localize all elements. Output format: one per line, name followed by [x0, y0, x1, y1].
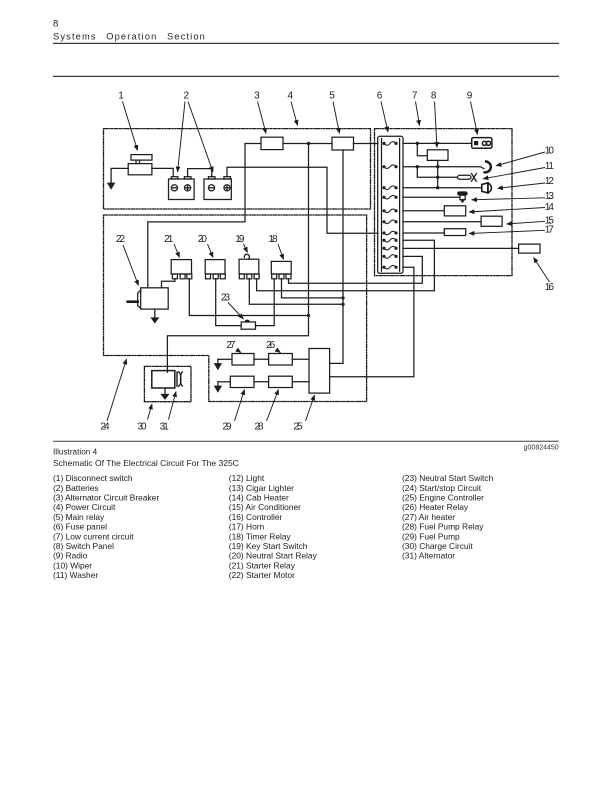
leader 31	[169, 392, 177, 420]
wire: fuel pump relay to engine controller	[292, 381, 309, 383]
svg-text:(5) Main relay: (5) Main relay	[53, 512, 105, 522]
node	[416, 142, 419, 145]
connector (9)	[472, 138, 492, 149]
svg-text:11: 11	[545, 161, 555, 172]
leader 22	[123, 245, 139, 286]
leader 1	[123, 102, 138, 151]
low current circuit border (7)	[375, 129, 513, 276]
leader 19	[244, 244, 248, 253]
svg-text:(16) Controller: (16) Controller	[229, 512, 283, 522]
svg-text:16: 16	[545, 282, 555, 293]
svg-text:(25) Engine Controller: (25) Engine Controller	[402, 493, 484, 503]
leader 6	[381, 102, 388, 133]
leader 27	[237, 350, 242, 353]
svg-text:(14) Cab Heater: (14) Cab Heater	[229, 493, 289, 503]
fuel pump (29)	[230, 376, 254, 387]
alternator (31)	[152, 371, 183, 388]
start/stop circuit border (24), L-shape	[104, 215, 367, 402]
wire: fuse row 5 to cab heater	[403, 210, 444, 212]
svg-text:(4) Power Circuit: (4) Power Circuit	[53, 502, 116, 512]
svg-text:(3) Alternator Circuit Breaker: (3) Alternator Circuit Breaker	[53, 493, 159, 503]
wire: fuse row 10 exit down to relay bundle	[289, 256, 423, 283]
leader 29	[235, 390, 245, 422]
svg-text:(11) Washer: (11) Washer	[53, 570, 98, 580]
main vertical bus: junction down, then left to alternator	[167, 144, 308, 373]
leader 13	[472, 198, 546, 200]
leader 15	[507, 221, 546, 224]
node	[341, 303, 344, 306]
wire: main relay to fuse panel	[354, 143, 379, 145]
svg-text:25: 25	[294, 421, 304, 432]
node: bus tap	[307, 314, 310, 317]
svg-text:27: 27	[226, 340, 236, 351]
leader 7	[416, 102, 420, 126]
wire: ground to disconnect switch	[111, 168, 128, 183]
circuit breaker feed wire down to starter	[148, 144, 261, 288]
wire: battery 2 feed riser to fuse panel	[227, 167, 378, 233]
svg-text:17: 17	[545, 225, 555, 236]
svg-text:23: 23	[221, 292, 231, 303]
leader 30	[148, 404, 153, 420]
svg-text:(1) Disconnect switch: (1) Disconnect switch	[53, 473, 133, 483]
leader 23	[228, 303, 244, 320]
wire: fuse row 9 to controller 16	[403, 247, 519, 249]
node	[416, 165, 419, 168]
node	[436, 176, 439, 179]
svg-text:(18) Timer Relay: (18) Timer Relay	[229, 531, 292, 541]
svg-text:20: 20	[198, 234, 208, 245]
leader 4	[291, 102, 298, 126]
svg-text:(27) Air heater: (27) Air heater	[402, 512, 455, 522]
leader 26	[276, 350, 281, 353]
leader 8	[435, 102, 438, 148]
node: light row tap	[436, 165, 439, 168]
battery (2b)	[204, 177, 231, 200]
svg-text:28: 28	[254, 421, 264, 432]
timer relay (18)	[271, 261, 291, 274]
wire: ground to fuel pump	[218, 381, 230, 383]
wire: fuse row 8 right exit down to timer relay bundle	[257, 240, 435, 291]
svg-text:Systems Operation Section: Systems Operation Section	[53, 32, 206, 42]
svg-text:(10) Wiper: (10) Wiper	[53, 560, 92, 570]
svg-text:26: 26	[266, 340, 276, 351]
svg-text:(23) Neutral Start Switch: (23) Neutral Start Switch	[402, 473, 494, 483]
wire: heater relay to engine controller	[292, 358, 309, 360]
node: horn row tap	[436, 186, 439, 189]
leader 18	[278, 244, 284, 260]
svg-text:(6) Fuse panel: (6) Fuse panel	[53, 522, 107, 532]
svg-text:21: 21	[164, 234, 174, 245]
charge circuit border (30)	[144, 366, 191, 401]
svg-text:(9) Radio: (9) Radio	[53, 551, 88, 561]
engine controller (25)	[309, 349, 330, 394]
wire: neutral start switch to timer relay pin	[256, 279, 275, 326]
ground (air heater)	[214, 359, 221, 369]
ground (fuel pump)	[214, 382, 221, 392]
leader 9	[471, 102, 478, 135]
wire: branch to washer	[417, 167, 457, 178]
wire: disconnect switch to battery 1	[152, 168, 173, 176]
leader 2b	[188, 102, 213, 173]
svg-text:14: 14	[545, 202, 555, 213]
wire: ground to air heater	[218, 358, 232, 360]
light (10)	[485, 162, 491, 173]
wire: switch panel down to horn row	[437, 160, 439, 187]
wire: fuse row 11 exit down to engine controller	[330, 267, 414, 377]
svg-text:24: 24	[100, 421, 110, 432]
wire: air heater to heater relay	[254, 358, 269, 360]
svg-text:6: 6	[377, 90, 383, 101]
leader 10	[496, 152, 545, 166]
wire: starter relay pin to main bus	[189, 279, 308, 316]
heater relay (26)	[269, 354, 293, 366]
leader 12	[498, 183, 546, 188]
neutral start switch (23)	[241, 320, 255, 329]
ground (alternator)	[161, 388, 169, 399]
header rule	[53, 42, 559, 44]
wire: fuse row 6 to air conditioner	[403, 221, 481, 223]
wire: timer relay mid pin to vertical A	[282, 279, 344, 298]
svg-text:(29) Fuel Pump: (29) Fuel Pump	[402, 531, 460, 541]
svg-text:(22) Starter Motor: (22) Starter Motor	[229, 570, 295, 580]
svg-text:2: 2	[184, 90, 190, 101]
svg-text:(21) Starter Relay: (21) Starter Relay	[229, 560, 296, 570]
horn (12)	[482, 183, 492, 193]
wire: fuse row 7 to cigar lighter	[403, 232, 444, 234]
svg-text:(2) Batteries: (2) Batteries	[53, 483, 99, 493]
cigar lighter box (17)	[444, 229, 465, 236]
wire: main relay output down (vertical A) to engine controller	[330, 150, 343, 363]
svg-text:g00824450: g00824450	[524, 444, 559, 451]
svg-text:8: 8	[431, 90, 437, 101]
wire: fuse row 2 to light	[403, 167, 484, 169]
leader 2a	[178, 102, 186, 173]
wire: starter relay pin to starter motor	[162, 279, 175, 288]
disconnect switch (1)	[128, 155, 152, 175]
ground (battery negative)	[108, 183, 115, 189]
power circuit border (4)	[104, 129, 371, 209]
svg-text:(8) Switch Panel: (8) Switch Panel	[53, 541, 114, 551]
battery (2a)	[169, 177, 195, 200]
svg-text:31: 31	[160, 421, 170, 432]
svg-text:13: 13	[545, 191, 555, 202]
alternator circuit breaker (3)	[261, 137, 283, 149]
svg-text:19: 19	[235, 234, 245, 245]
wire: fuel pump to fuel pump relay	[254, 381, 269, 383]
svg-text:Illustration 4: Illustration 4	[53, 447, 98, 456]
fuel pump relay (28)	[269, 376, 293, 387]
svg-text:30: 30	[137, 421, 147, 432]
node	[341, 296, 344, 299]
svg-text:1: 1	[118, 90, 124, 101]
leader 21	[174, 244, 180, 258]
svg-text:(26) Heater Relay: (26) Heater Relay	[402, 502, 469, 512]
svg-text:Schematic Of The Electrical Ci: Schematic Of The Electrical Circuit For …	[53, 458, 239, 468]
neutral start relay (20)	[205, 260, 225, 274]
starter relay (21)	[171, 260, 191, 274]
svg-text:(12) Light: (12) Light	[229, 473, 265, 483]
key symbol on switch	[244, 254, 249, 259]
svg-text:(28) Fuel Pump Relay: (28) Fuel Pump Relay	[402, 522, 484, 532]
air conditioner (15)	[481, 216, 502, 226]
leader 24	[107, 359, 127, 421]
svg-text:18: 18	[268, 234, 278, 245]
washer (11)	[458, 174, 477, 182]
svg-text:(31) Alternator: (31) Alternator	[402, 551, 455, 561]
svg-text:(7) Low current circuit: (7) Low current circuit	[53, 531, 134, 541]
svg-text:4: 4	[288, 90, 294, 101]
wire: branch into switch panel box	[417, 143, 427, 155]
leader 11	[483, 168, 545, 179]
wire: key switch mid pin to vertical A	[249, 279, 343, 305]
svg-text:9: 9	[467, 90, 473, 101]
svg-text:(15) Air Conditioner: (15) Air Conditioner	[229, 502, 301, 512]
second rule	[53, 75, 559, 77]
svg-text:(19) Key Start Switch: (19) Key Start Switch	[229, 541, 308, 551]
svg-text:8: 8	[53, 19, 58, 30]
svg-text:12: 12	[545, 176, 555, 187]
controller (16)	[519, 244, 540, 253]
svg-text:(24) Start/stop Circuit: (24) Start/stop Circuit	[402, 483, 482, 493]
node: main feed junction	[307, 142, 310, 145]
caption rule	[53, 440, 559, 442]
leader 28	[267, 390, 279, 422]
relay pins	[172, 274, 291, 279]
svg-text:7: 7	[412, 90, 418, 101]
svg-text:10: 10	[545, 146, 555, 157]
svg-text:22: 22	[116, 234, 126, 245]
svg-text:(30) Charge Circuit: (30) Charge Circuit	[402, 541, 473, 551]
wire: fuse row 4 to wiper	[403, 196, 460, 198]
svg-text:29: 29	[222, 421, 232, 432]
fuses	[384, 142, 396, 269]
leader 16	[534, 258, 550, 283]
leader 25	[306, 395, 315, 421]
main relay (5)	[332, 137, 354, 150]
key start switch (19)	[239, 259, 259, 274]
svg-text:3: 3	[254, 90, 260, 101]
wire: battery 1 to battery 2	[188, 169, 212, 177]
wire: neutral relay pin to neutral start switch	[216, 279, 242, 326]
svg-text:(13) Cigar Lighter: (13) Cigar Lighter	[229, 483, 294, 493]
wire: breaker to junction to main relay	[283, 143, 332, 145]
cab heater (14)	[444, 206, 465, 216]
wire: fuse row 3 to horn	[403, 187, 482, 189]
leader 5	[333, 102, 340, 134]
svg-text:(20) Neutral Start Relay: (20) Neutral Start Relay	[229, 551, 318, 561]
switch panel box (8)	[427, 150, 448, 161]
svg-text:(17) Horn: (17) Horn	[229, 522, 265, 532]
starter motor (22)	[128, 288, 169, 309]
leader 3	[258, 102, 267, 134]
air heater (27)	[232, 354, 254, 366]
leader 14	[469, 208, 545, 213]
wiper (13)	[458, 192, 467, 203]
wire: fuse row 1 to radio and connector	[403, 142, 472, 144]
leader 17	[469, 230, 545, 233]
leader 20	[208, 244, 214, 258]
ground (starter)	[151, 309, 159, 323]
svg-text:5: 5	[329, 90, 335, 101]
